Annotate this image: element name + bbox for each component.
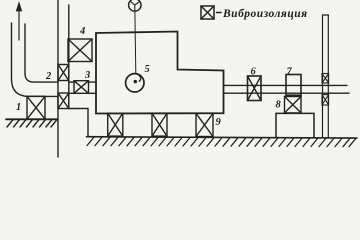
isolator 8 (285, 97, 302, 113)
ground hatching left (7, 120, 57, 127)
flexible insert 4 (68, 39, 92, 62)
right exhaust duct left wall (322, 15, 324, 137)
left vertical duct right wall (68, 5, 70, 109)
svg-text:4: 4 (79, 26, 85, 37)
intake stack inner wall with elbow (25, 24, 58, 82)
outlet duct bottom wall (224, 92, 350, 94)
svg-text:6: 6 (251, 67, 257, 78)
floor step left of fan body (69, 109, 88, 137)
isolator 9c under body (196, 113, 213, 136)
suspension line to impeller (134, 11, 137, 73)
flexible insert 3 (74, 81, 89, 94)
svg-text:3: 3 (84, 70, 90, 81)
fan casing body (96, 32, 224, 114)
legend symbol box (201, 6, 214, 19)
svg-text:1: 1 (16, 102, 21, 113)
floor line (87, 137, 358, 138)
device 7 box (286, 75, 301, 96)
fan impeller 5 (126, 74, 144, 92)
svg-text:5: 5 (145, 64, 150, 75)
impeller spiral curl (136, 74, 141, 82)
ground line left (6, 118, 57, 120)
foundation pedestal (276, 113, 314, 137)
intake stack outer wall with elbow (12, 23, 59, 96)
isolator 9b under body (152, 113, 167, 136)
flexible insert 6 (248, 76, 262, 101)
flexible insert lower on exhaust duct (322, 95, 329, 105)
right exhaust duct top cap (323, 14, 329, 16)
flexible insert upper on exhaust duct (322, 74, 329, 84)
svg-text:7: 7 (287, 67, 293, 78)
motor symbol circle (129, 0, 141, 11)
svg-text:8: 8 (276, 100, 282, 111)
legend dash (217, 12, 222, 14)
floor hatching (87, 137, 356, 147)
svg-text:9: 9 (216, 117, 222, 128)
inlet duct top wall to fan body (69, 81, 96, 83)
left vertical duct left wall (57, 0, 59, 157)
outlet duct top wall (224, 84, 348, 86)
svg-text:2: 2 (45, 71, 52, 82)
inlet duct bottom wall to fan body (69, 92, 96, 94)
isolator 9a under body (108, 113, 123, 136)
flexible insert 2 (58, 65, 69, 81)
flexible insert below junction (58, 93, 69, 109)
motor symbol inner mark (131, 1, 140, 11)
svg-text:Виброизоляция: Виброизоляция (222, 8, 308, 20)
isolator 1 under inlet duct (27, 96, 45, 119)
air flow arrow (18, 10, 20, 40)
right exhaust duct right wall (327, 15, 329, 137)
impeller hub dot (134, 80, 137, 83)
